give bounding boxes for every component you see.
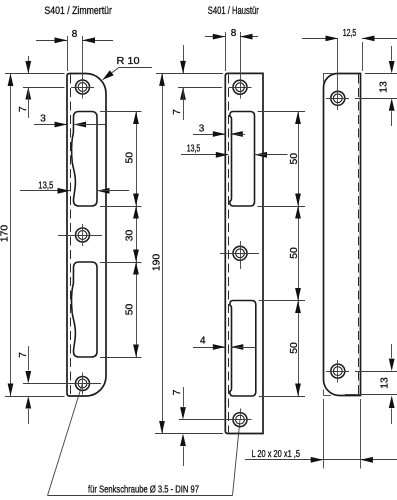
svg-text:50: 50 <box>289 342 300 354</box>
svg-text:7: 7 <box>18 106 29 112</box>
svg-text:S401 / Haustür: S401 / Haustür <box>208 5 259 17</box>
svg-text:30: 30 <box>125 230 136 242</box>
svg-text:4: 4 <box>200 335 206 346</box>
svg-text:7: 7 <box>18 352 29 358</box>
svg-text:13: 13 <box>380 377 391 389</box>
svg-text:50: 50 <box>289 153 300 165</box>
svg-text:7: 7 <box>172 389 183 395</box>
svg-text:13,5: 13,5 <box>38 181 53 192</box>
svg-text:50: 50 <box>125 152 136 164</box>
svg-text:L 20 x 20 x1 ,5: L 20 x 20 x1 ,5 <box>252 449 301 460</box>
svg-text:8: 8 <box>231 28 237 39</box>
svg-text:8: 8 <box>72 29 78 40</box>
svg-text:13,5: 13,5 <box>187 144 201 155</box>
svg-text:3: 3 <box>40 114 46 125</box>
svg-text:7: 7 <box>172 109 183 115</box>
svg-text:12,5: 12,5 <box>343 28 357 39</box>
svg-text:S401 / Zimmertür: S401 / Zimmertür <box>44 5 112 17</box>
svg-text:R 10: R 10 <box>117 56 140 67</box>
svg-text:3: 3 <box>199 124 205 135</box>
svg-text:50: 50 <box>289 247 300 259</box>
svg-text:für Senkschraube Ø 3.5 - DIN 9: für Senkschraube Ø 3.5 - DIN 97 <box>88 484 199 495</box>
svg-text:13: 13 <box>379 81 390 93</box>
svg-text:170: 170 <box>0 225 11 242</box>
svg-text:190: 190 <box>151 254 162 271</box>
svg-text:50: 50 <box>125 304 136 316</box>
